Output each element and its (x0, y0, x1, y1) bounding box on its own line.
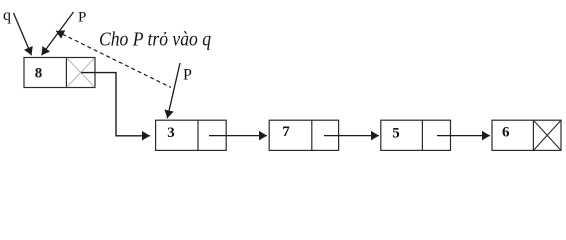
node 5 divider (421, 120, 423, 150)
node 6 box (492, 120, 561, 150)
svg-text:P: P (183, 67, 192, 84)
wire from node q/8 pointer to node 3 (elbow) (81, 73, 150, 136)
node 3 box (156, 120, 227, 150)
node 5 box (381, 120, 451, 150)
svg-text:3: 3 (167, 125, 175, 141)
arrow node 7 to node 5 (324, 135, 379, 137)
node 7 divider (311, 120, 313, 150)
node 6 null X (533, 120, 561, 150)
arrow node 5 to node 6 (437, 135, 490, 137)
node 6 divider (532, 120, 534, 150)
arrow from q to node head (14, 13, 32, 55)
node 3 divider (197, 120, 199, 150)
svg-text:6: 6 (502, 125, 510, 141)
svg-text:q: q (3, 7, 11, 24)
arrow from P (top) to node head (42, 12, 74, 55)
svg-text:8: 8 (35, 65, 43, 81)
node 7 box (269, 120, 338, 150)
node q/8 divider (65, 58, 67, 88)
node q/8 null X (light) (67, 58, 95, 87)
dashed arrow (Cho P tro vao q) (56, 31, 171, 88)
svg-text:7: 7 (282, 124, 290, 140)
node q/8 box (24, 58, 95, 88)
arrow from P (second) to node 3 (167, 63, 180, 118)
svg-text:Cho P trỏ vào q: Cho P trỏ vào q (99, 29, 211, 50)
svg-text:P: P (78, 10, 86, 26)
svg-text:5: 5 (392, 125, 400, 141)
arrow node 3 to node 7 (209, 135, 267, 137)
